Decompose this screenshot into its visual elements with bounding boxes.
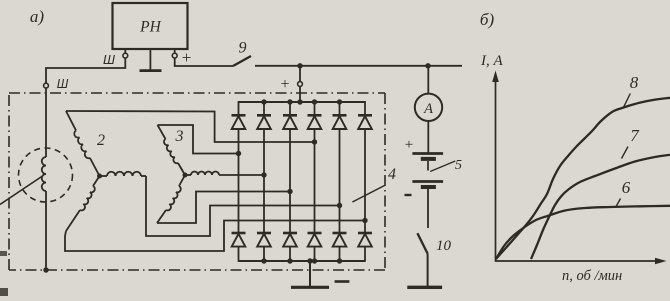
wire column 1 upper — [238, 129, 240, 154]
battery GB 5 plates — [412, 152, 443, 155]
leader line label 5 — [430, 161, 455, 172]
wire column 4 lower — [314, 142, 316, 233]
winding 2 upper limb — [66, 111, 76, 131]
wire node Ш down to field coil — [45, 88, 47, 157]
leader line label 4 — [352, 186, 384, 203]
wire top to + terminal — [299, 66, 301, 82]
diode VD9 bottom (column 3) — [283, 232, 297, 235]
node Ш (brush terminal) — [44, 83, 49, 88]
wire battery to switch 10 — [427, 189, 429, 228]
junction ground stem on bottom bus — [307, 258, 312, 263]
svg-text:а): а) — [30, 7, 45, 26]
junction top bus — [312, 99, 317, 104]
diode VD4 top (column 4) — [314, 101, 316, 115]
svg-text:+: + — [182, 48, 192, 67]
X axis n — [496, 260, 660, 262]
leader curve 8 — [624, 94, 631, 108]
wire ammeter to battery — [427, 121, 429, 154]
junction top bus — [337, 99, 342, 104]
wire + terminal to switch 9 — [175, 58, 233, 66]
wire Ш terminal to node Ш — [46, 58, 125, 84]
svg-text:Ш: Ш — [103, 52, 115, 67]
wire winding3 upper phase to column 1 — [158, 125, 239, 154]
field winding coil — [42, 157, 46, 191]
leader curve 6 — [616, 199, 621, 208]
node phase 3 — [287, 189, 292, 194]
junction field winding to frame — [43, 267, 48, 272]
junction + output on top wire — [297, 63, 302, 68]
diode VD5 top (column 5) — [339, 101, 341, 115]
diode VD3 top (column 3) — [289, 101, 291, 115]
svg-text:10: 10 — [436, 238, 452, 254]
junction bottom bus — [337, 258, 342, 263]
wire column 1 lower — [238, 154, 240, 234]
wire column 3 lower — [289, 192, 291, 234]
svg-text:РН: РН — [139, 19, 161, 36]
svg-text:+: + — [405, 137, 413, 153]
diode VD12 bottom (column 6) — [358, 232, 372, 235]
wire column 4 upper — [314, 129, 316, 142]
ground of РН — [149, 49, 151, 70]
svg-text:3: 3 — [175, 128, 184, 145]
wire to ammeter — [427, 66, 429, 94]
svg-text:7: 7 — [630, 126, 640, 145]
wire winding3 lower phase to column 3 — [157, 192, 290, 224]
ground of rectifier — [309, 261, 311, 286]
svg-text:2: 2 — [97, 132, 105, 149]
svg-text:6: 6 — [622, 178, 631, 197]
generator case boundary (dash-dot) — [9, 92, 385, 94]
junction + feed on top bus — [297, 99, 302, 104]
svg-text:+: + — [280, 76, 289, 93]
Y axis I,A — [495, 78, 497, 262]
svg-text:А: А — [423, 101, 433, 117]
wire + terminal to top bus — [299, 86, 301, 102]
node phase 1 — [236, 151, 241, 156]
diode VD10 bottom (column 4) — [308, 232, 322, 235]
switch 9 blade — [233, 56, 251, 66]
wire column 3 upper — [289, 129, 291, 192]
junction bottom bus — [287, 258, 292, 263]
junction top bus — [287, 99, 292, 104]
diode VD6 top (column 6) — [364, 101, 366, 115]
switch 10 blade — [417, 233, 427, 253]
wire winding2 lower phase to column 6 — [65, 221, 365, 252]
junction bottom bus — [312, 258, 317, 263]
diode VD1 top (column 1) — [238, 101, 240, 115]
svg-text:8: 8 — [630, 73, 639, 92]
winding 3 upper limb — [158, 125, 166, 139]
curve 7 — [531, 155, 670, 259]
ground of battery branch — [407, 286, 442, 289]
node phase 4 — [312, 139, 317, 144]
minus sign at generator ground — [335, 280, 350, 283]
winding 3 horizontal limb — [191, 172, 219, 175]
terminal + of generator — [298, 82, 303, 87]
diode VD7 bottom (column 1) — [232, 232, 246, 235]
diode VD8 bottom (column 2) — [257, 232, 271, 235]
wire column 2 upper — [263, 129, 265, 175]
svg-text:4: 4 — [388, 166, 396, 183]
leader line to rotor (label 1 off-image) — [0, 176, 43, 205]
svg-text:Ш: Ш — [57, 77, 69, 91]
curve 8 — [496, 98, 670, 259]
wire column 2 lower — [263, 175, 265, 233]
curve 6 — [496, 206, 670, 259]
scan mark bottom-left corner — [0, 288, 8, 296]
winding 2 horizontal limb — [107, 172, 141, 176]
svg-text:I, А: I, А — [480, 53, 503, 69]
junction bottom bus — [261, 258, 266, 263]
winding 2 lower limb — [93, 176, 100, 186]
wire column 6 lower — [364, 221, 366, 234]
rectifier top bus (+) — [239, 101, 366, 103]
label - at battery — [405, 194, 412, 196]
rotor field winding circle (dashed) — [19, 148, 73, 202]
terminal Ш of РН — [124, 49, 126, 53]
wire winding2 middle phase to column 5 — [146, 176, 340, 236]
terminal + of РН — [174, 49, 176, 53]
ammeter A circle — [415, 94, 442, 121]
node phase 6 — [362, 218, 367, 223]
wire switch 9 to right end — [255, 65, 462, 67]
wire winding2 upper phase to column 4 — [66, 111, 315, 142]
svg-text:9: 9 — [239, 40, 247, 57]
wire winding3 middle phase to column 2 — [219, 174, 264, 176]
wire field coil to frame — [45, 191, 47, 270]
svg-text:п, об /мин: п, об /мин — [562, 268, 622, 284]
svg-text:5: 5 — [455, 158, 462, 173]
rectifier bottom bus (-) — [239, 260, 366, 262]
wire column 6 upper — [364, 129, 366, 221]
wire switch 10 to ground — [427, 254, 429, 286]
voltage regulator U1 (РН) box — [113, 3, 188, 49]
winding 3 center node — [183, 173, 188, 178]
leader curve 7 — [622, 147, 629, 159]
junction ammeter branch on top wire — [425, 63, 430, 68]
diode VD2 top (column 2) — [263, 101, 265, 115]
node phase 5 — [337, 203, 342, 208]
wire column 5 lower — [339, 206, 341, 234]
wire column 5 upper — [339, 129, 341, 206]
junction top bus — [261, 99, 266, 104]
scan mark left edge — [0, 251, 7, 256]
diode VD11 bottom (column 5) — [333, 232, 347, 235]
node phase 2 — [261, 172, 266, 177]
winding 3 lower limb — [179, 175, 185, 186]
svg-text:б): б) — [480, 10, 495, 29]
winding 2 center node — [97, 174, 102, 179]
